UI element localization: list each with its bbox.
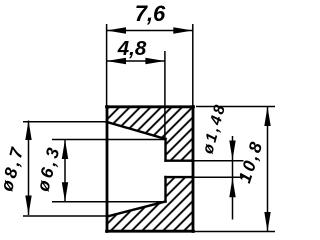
right face: [192, 107, 195, 232]
hole top line: [166, 159, 194, 161]
arrow 10,8 down: [264, 212, 270, 232]
ext line right (above part, for 7,6): [192, 24, 194, 107]
ext line dia8,7 top: [23, 121, 107, 123]
arrow 7,6 right: [173, 27, 193, 33]
cone end face upper: [164, 139, 166, 161]
internal bore (cone + hole): [107, 122, 193, 217]
arrow dia6,3 up: [62, 140, 68, 160]
bottom edge: [107, 230, 194, 233]
ext line dia8,7 bottom: [23, 215, 107, 217]
arrow dia1,48 up (below hole): [229, 178, 235, 198]
cone end face lower: [164, 177, 166, 202]
arrow dia6,3 down: [62, 182, 68, 202]
arrow 4,8 left: [107, 58, 127, 64]
arrowheads: [25, 27, 270, 231]
arrow 10,8 up: [264, 107, 270, 127]
top edge: [107, 105, 194, 108]
dim line dia1,48 (vertical through): [232, 136, 234, 220]
dim line 4,8: [107, 60, 165, 62]
ext line 10,8 top: [196, 106, 275, 108]
dim line dia8,7: [28, 121, 30, 216]
dim line dia6,3: [64, 140, 66, 202]
ext line dia6,3 bottom: [52, 201, 166, 203]
dim line 10,8: [267, 107, 269, 232]
ext line left (above part, for 7,6 and 4,8): [106, 24, 108, 107]
cone top line: [107, 122, 166, 139]
arrow 4,8 right: [145, 58, 165, 64]
ext line 4,8 right / cone end: [164, 51, 166, 139]
hatched section: upper body: [107, 107, 193, 161]
arrow dia8,7 up: [25, 121, 31, 141]
hole bottom line: [166, 176, 194, 178]
ext line hole bottom (right): [193, 176, 244, 178]
arrow 7,6 left: [107, 27, 127, 33]
hatched section: lower body: [107, 177, 193, 231]
svg-text:4,8: 4,8: [117, 37, 147, 60]
dim line 7,6: [107, 30, 193, 32]
cone bottom line: [107, 202, 166, 217]
arrow dia8,7 down: [25, 196, 31, 216]
arrow dia1,48 down (above hole): [229, 141, 235, 161]
svg-text:7,6: 7,6: [135, 1, 166, 26]
thin lines: extensions and dimension lines: [23, 24, 275, 232]
ext line dia6,3 top: [52, 139, 166, 141]
left face: [106, 107, 109, 232]
part outline: [107, 107, 194, 232]
ext line hole top (right): [193, 160, 244, 162]
ext line 10,8 bottom: [193, 231, 275, 233]
